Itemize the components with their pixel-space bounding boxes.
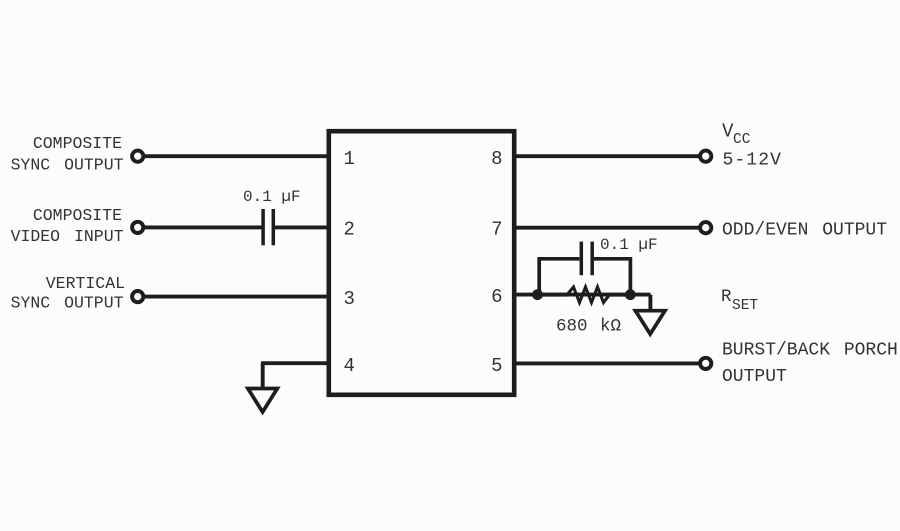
node junction dot right — [625, 289, 636, 300]
terminal circle pin2 — [132, 222, 143, 233]
svg-text:6: 6 — [491, 286, 502, 308]
capacitor C1 0.1uF plate left — [261, 209, 265, 245]
terminal circle pin7 — [700, 222, 711, 233]
wire pin5 to terminal — [515, 361, 700, 365]
wire capacitor to pin2 — [275, 225, 328, 229]
node junction dot left — [532, 289, 543, 300]
svg-text:ODD/EVEN OUTPUT: ODD/EVEN OUTPUT — [722, 220, 887, 240]
svg-text:CC: CC — [733, 132, 751, 148]
svg-text:4: 4 — [344, 355, 355, 377]
wire pin6 stub to network — [515, 293, 651, 297]
svg-text:5: 5 — [491, 355, 502, 377]
wire pin2 left segment to capacitor — [143, 225, 262, 229]
resistor R1 680k zigzag — [542, 293, 567, 297]
svg-text:R: R — [721, 287, 732, 307]
svg-text:COMPOSITE: COMPOSITE — [33, 134, 122, 153]
svg-text:OUTPUT: OUTPUT — [722, 367, 787, 387]
svg-text:VIDEO INPUT: VIDEO INPUT — [11, 227, 124, 246]
wire pin3 to terminal — [143, 295, 328, 299]
svg-text:680 kΩ: 680 kΩ — [556, 316, 621, 336]
terminal circle pin3 — [132, 291, 143, 302]
svg-text:VERTICAL: VERTICAL — [46, 274, 125, 293]
svg-text:BURST/BACK PORCH: BURST/BACK PORCH — [722, 341, 898, 361]
svg-text:SYNC OUTPUT: SYNC OUTPUT — [11, 294, 124, 313]
wire pin6 branch down to ground — [648, 295, 652, 311]
svg-text:8: 8 — [491, 148, 502, 170]
svg-text:0.1 µF: 0.1 µF — [600, 236, 658, 254]
terminal circle pin8 — [700, 151, 711, 162]
wire pin1 to terminal — [143, 154, 328, 158]
capacitor C2 plate right — [590, 242, 594, 276]
wire pin4 vertical drop — [261, 363, 265, 388]
terminal circle pin5 — [700, 358, 711, 369]
svg-text:0.1 µF: 0.1 µF — [243, 188, 301, 206]
capacitor C1 0.1uF plate right — [272, 209, 276, 245]
svg-text:COMPOSITE: COMPOSITE — [33, 206, 122, 225]
ground symbol at pin 4 — [248, 389, 277, 413]
op-amp U1 (IC body LM1881, 8-pin box) — [329, 131, 514, 395]
wire pin4 horizontal — [261, 361, 328, 365]
svg-text:2: 2 — [344, 219, 355, 241]
wire pin7 to terminal — [515, 226, 700, 230]
wire pin8 to terminal — [515, 154, 700, 158]
svg-text:7: 7 — [491, 219, 502, 241]
svg-text:SET: SET — [732, 298, 758, 314]
capacitor C2 plate left — [580, 242, 584, 276]
svg-text:3: 3 — [344, 288, 355, 310]
svg-text:SYNC OUTPUT: SYNC OUTPUT — [11, 156, 124, 175]
terminal circle pin1 — [132, 151, 143, 162]
wire riser left of C2 — [539, 259, 579, 295]
wire riser right of C2 — [594, 259, 630, 295]
ground symbol at RSET network — [635, 311, 665, 334]
svg-text:5-12V: 5-12V — [723, 150, 783, 170]
svg-text:1: 1 — [344, 148, 355, 170]
